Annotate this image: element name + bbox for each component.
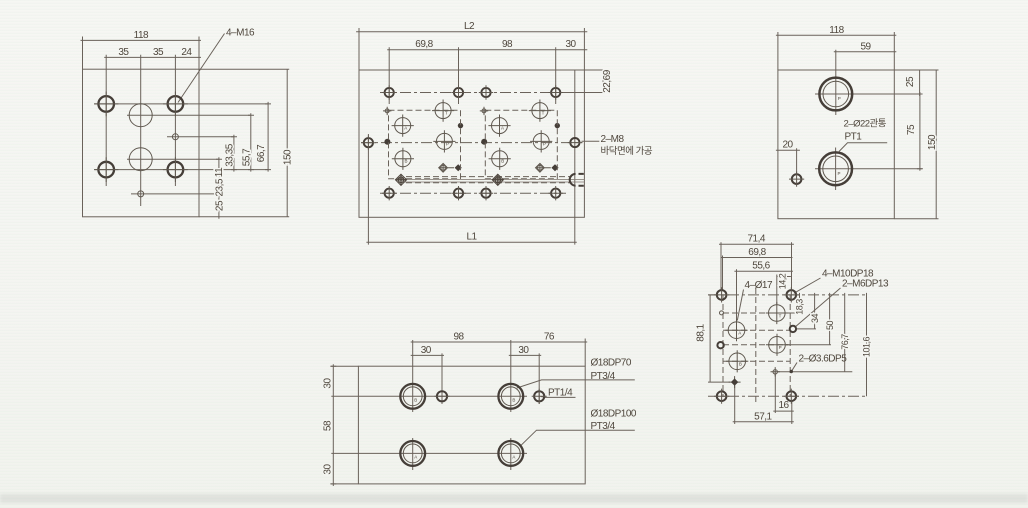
svg-text:69,8: 69,8 bbox=[748, 247, 766, 258]
svg-text:118: 118 bbox=[134, 30, 149, 41]
svg-text:2–M6DP13: 2–M6DP13 bbox=[842, 279, 889, 290]
svg-text:T: T bbox=[445, 111, 448, 116]
svg-text:11: 11 bbox=[214, 167, 225, 177]
svg-text:98: 98 bbox=[453, 332, 464, 343]
svg-text:76: 76 bbox=[544, 332, 555, 343]
svg-text:150: 150 bbox=[927, 134, 938, 150]
svg-text:75: 75 bbox=[906, 124, 917, 135]
svg-text:P: P bbox=[543, 141, 546, 146]
svg-text:30: 30 bbox=[421, 345, 432, 356]
svg-text:118: 118 bbox=[829, 25, 844, 36]
svg-text:B: B bbox=[501, 159, 504, 164]
svg-text:71,4: 71,4 bbox=[747, 234, 765, 245]
svg-text:Ø18DP100: Ø18DP100 bbox=[591, 409, 637, 420]
svg-text:30: 30 bbox=[565, 39, 576, 50]
svg-text:A: A bbox=[738, 331, 741, 336]
svg-text:바닥면에 가공: 바닥면에 가공 bbox=[601, 146, 653, 157]
svg-text:T: T bbox=[779, 313, 782, 318]
svg-text:T: T bbox=[542, 111, 545, 116]
svg-text:B: B bbox=[404, 159, 407, 164]
svg-text:2–M8: 2–M8 bbox=[601, 134, 625, 145]
svg-text:B: B bbox=[414, 398, 417, 403]
svg-text:76,7: 76,7 bbox=[840, 334, 850, 350]
svg-text:50: 50 bbox=[825, 321, 835, 331]
svg-text:30: 30 bbox=[323, 464, 334, 475]
svg-text:PT3/4: PT3/4 bbox=[591, 421, 616, 432]
svg-text:2–Ø3.6DP5: 2–Ø3.6DP5 bbox=[799, 353, 848, 364]
svg-text:25: 25 bbox=[905, 76, 916, 87]
svg-text:18,3: 18,3 bbox=[795, 299, 805, 315]
svg-text:59: 59 bbox=[860, 41, 871, 52]
svg-text:Ø18DP70: Ø18DP70 bbox=[591, 357, 632, 368]
svg-text:16: 16 bbox=[778, 400, 789, 411]
svg-text:35: 35 bbox=[118, 47, 129, 58]
svg-text:P: P bbox=[838, 96, 841, 101]
svg-text:A: A bbox=[501, 126, 504, 131]
svg-text:B: B bbox=[739, 362, 742, 367]
svg-text:PT3/4: PT3/4 bbox=[591, 371, 616, 382]
svg-text:25: 25 bbox=[214, 200, 225, 211]
svg-text:98: 98 bbox=[502, 39, 513, 50]
svg-text:33,35: 33,35 bbox=[225, 143, 236, 166]
svg-text:66,7: 66,7 bbox=[256, 144, 267, 162]
svg-text:55,7: 55,7 bbox=[242, 148, 253, 166]
svg-text:L2: L2 bbox=[464, 21, 475, 32]
svg-text:PT1: PT1 bbox=[845, 132, 863, 143]
svg-text:4–M16: 4–M16 bbox=[226, 27, 255, 38]
svg-text:14,2: 14,2 bbox=[777, 273, 787, 289]
svg-text:69,8: 69,8 bbox=[415, 39, 433, 50]
svg-text:57,1: 57,1 bbox=[754, 411, 772, 422]
svg-text:24: 24 bbox=[181, 47, 192, 58]
svg-text:20: 20 bbox=[782, 140, 793, 151]
svg-text:4–Ø17: 4–Ø17 bbox=[745, 280, 773, 291]
svg-text:58: 58 bbox=[323, 420, 334, 431]
svg-text:34: 34 bbox=[810, 314, 820, 324]
svg-text:30: 30 bbox=[518, 345, 529, 356]
svg-text:A: A bbox=[414, 455, 417, 460]
svg-text:22,69: 22,69 bbox=[602, 69, 613, 92]
svg-text:55,6: 55,6 bbox=[752, 261, 770, 272]
svg-text:A: A bbox=[404, 126, 407, 131]
svg-text:150: 150 bbox=[282, 149, 293, 165]
svg-text:2–Ø22관통: 2–Ø22관통 bbox=[844, 118, 887, 129]
svg-text:101,6: 101,6 bbox=[862, 336, 872, 357]
svg-text:88,1: 88,1 bbox=[696, 323, 707, 341]
svg-text:L1: L1 bbox=[466, 232, 477, 243]
svg-text:P: P bbox=[838, 171, 841, 176]
svg-text:PT1/4: PT1/4 bbox=[548, 388, 573, 399]
svg-text:35: 35 bbox=[153, 47, 164, 58]
svg-text:23,5: 23,5 bbox=[215, 178, 226, 196]
svg-text:A: A bbox=[512, 455, 515, 460]
svg-text:P: P bbox=[446, 141, 449, 146]
svg-text:B: B bbox=[512, 398, 515, 403]
svg-text:30: 30 bbox=[323, 378, 334, 389]
svg-text:P: P bbox=[779, 345, 782, 350]
